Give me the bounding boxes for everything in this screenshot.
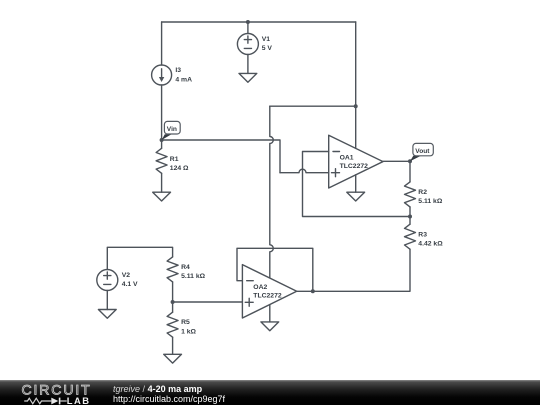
svg-text:TLC2272: TLC2272	[253, 293, 282, 300]
svg-text:OA2: OA2	[253, 284, 267, 291]
flag Vin	[162, 121, 181, 140]
wire: V1 bottom stub	[247, 55, 249, 74]
node: junction V1 to top rail	[246, 20, 250, 24]
svg-text:I3: I3	[175, 67, 181, 74]
wire: OA2 feedback loop	[237, 248, 313, 291]
svg-text:TLC2272: TLC2272	[340, 163, 369, 170]
ground: below OA2	[261, 322, 279, 331]
node Vout	[408, 159, 412, 163]
svg-text:R1: R1	[170, 156, 179, 163]
svg-text:1 kΩ: 1 kΩ	[181, 328, 196, 335]
wire: +5V down right side to OA1 V+ pin	[355, 22, 357, 148]
svg-text:R3: R3	[418, 231, 427, 238]
wire: left vertical to I3	[161, 22, 163, 65]
svg-text:5.11 kΩ: 5.11 kΩ	[418, 198, 443, 205]
wire: supply branch to OA2	[270, 105, 356, 107]
svg-text:4.42 kΩ: 4.42 kΩ	[418, 241, 443, 248]
node Vin	[160, 138, 164, 142]
svg-text:Vout: Vout	[415, 148, 430, 155]
wire: OA1 V- pin to ground	[355, 175, 357, 192]
footer bar	[0, 380, 540, 405]
resistor R5	[172, 302, 174, 312]
ground: below V1	[239, 73, 257, 82]
wire: V2 bottom stub	[106, 291, 108, 310]
wire: R3 bottom to OA2 output	[297, 249, 410, 291]
footer credit text	[113, 380, 225, 403]
ground: below R5	[164, 354, 182, 363]
resistor R3	[409, 217, 411, 225]
node: R2/R3 junction	[408, 215, 412, 219]
node: R4/R5 junction	[171, 300, 175, 304]
svg-text:5 V: 5 V	[262, 45, 273, 52]
wire: +5V top rail	[162, 21, 356, 23]
resistor R4	[167, 257, 178, 282]
svg-text:5.11 kΩ: 5.11 kΩ	[181, 273, 206, 280]
svg-text:LAB: LAB	[67, 395, 91, 405]
svg-text:Vin: Vin	[167, 126, 177, 133]
footer logo CircuitLab	[0, 380, 120, 405]
wire: Vin to OA1 non-inverting branch	[162, 140, 280, 173]
wire: to OA1 plus input with hop	[280, 169, 329, 173]
ground: below V2	[98, 310, 116, 319]
op-amp OA1	[329, 135, 383, 188]
svg-text:124 Ω: 124 Ω	[170, 165, 189, 172]
wire: OA2 V- pin to ground	[269, 305, 271, 322]
wire: I3 to Vin node	[161, 85, 163, 140]
flag Vout	[410, 143, 433, 161]
current source I3	[152, 65, 172, 85]
svg-text:V2: V2	[122, 272, 131, 279]
svg-text:V1: V1	[262, 36, 271, 43]
svg-text:R5: R5	[181, 319, 190, 326]
wire: OA2 V+ vertical with two hops	[270, 106, 274, 278]
svg-text:OA1: OA1	[340, 154, 354, 161]
ground: below R1	[153, 192, 171, 201]
svg-text:4.1 V: 4.1 V	[122, 281, 138, 288]
node: supply branch junction	[354, 104, 358, 108]
wire: V2 top to R4 top	[107, 247, 172, 269]
svg-text:R4: R4	[181, 264, 190, 271]
voltage source V1	[237, 34, 258, 55]
resistor R2	[409, 161, 411, 182]
wire: OA1 output to Vout node	[383, 160, 410, 162]
wire: V1 top stub	[247, 22, 249, 34]
svg-text:R2: R2	[418, 189, 427, 196]
svg-text:4 mA: 4 mA	[175, 76, 192, 83]
wire: feedback to OA1 minus input	[303, 152, 411, 217]
wire: junction to OA2 plus input	[173, 301, 243, 303]
ground: below OA1	[347, 192, 365, 201]
resistor R1	[161, 140, 163, 148]
op-amp OA2	[242, 265, 296, 318]
voltage source V2	[97, 270, 118, 291]
node: OA2 output junction	[311, 289, 315, 293]
